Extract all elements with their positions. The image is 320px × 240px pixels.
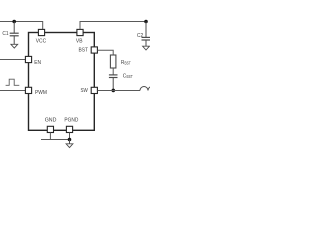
pulse waveform symbol on PWM input [6,79,20,85]
wire: BST to RBST [97,50,113,55]
node: PGND junction dot [68,138,72,142]
pin BST [91,47,97,53]
pin SW [91,87,97,93]
pin PGND [66,126,72,132]
svg-text:VB: VB [76,38,83,44]
pin VB [77,29,83,35]
svg-text:PWM: PWM [35,90,47,96]
pin EN [25,56,31,62]
wire: VIN top-left rail into VCC [0,22,43,30]
ground: arrow under C1 [11,44,18,48]
capacitor C1 [10,22,19,45]
pin PWM [25,87,31,93]
node: C2 junction dot [144,20,148,24]
wire: VB to C2 rail [80,22,146,30]
node: SW junction dot [112,89,116,93]
svg-text:BST: BST [127,74,134,79]
svg-text:PGND: PGND [64,118,78,124]
wire: PWM input [0,90,25,92]
svg-text:BST: BST [79,48,89,54]
svg-text:VCC: VCC [36,39,46,45]
wire: GND to bottom rail [41,133,50,140]
wire: EN input [0,59,25,61]
svg-text:SW: SW [81,88,89,94]
ground: arrow under PGND [69,140,71,144]
wire: RBST to CBST [112,68,114,75]
pin GND [47,126,53,132]
wire: PGND to bottom rail [50,133,69,140]
ground: arrow under C2 [143,46,150,50]
svg-text:C1: C1 [2,31,8,37]
svg-text:EN: EN [34,60,41,66]
resistor RBST [110,55,116,68]
svg-text:GND: GND [45,118,57,124]
capacitor CBST [109,75,118,91]
pin VCC [38,29,44,35]
capacitor C2 [142,22,151,47]
wire: SW output [97,90,140,92]
node: C1 junction dot [12,20,16,24]
svg-text:C2: C2 [137,33,143,39]
inductor L1 [140,87,156,91]
op-amp U1 IC body [29,33,95,131]
svg-text:BST: BST [125,60,132,65]
